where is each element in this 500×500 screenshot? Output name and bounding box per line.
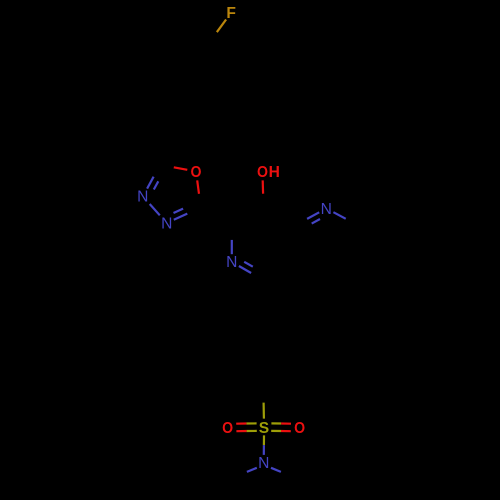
phenyl bond 2 [292,335,294,370]
bond N5-C6 [333,212,358,225]
double bond S=O left [236,423,257,431]
bond O1-C5 oxadiazole [197,180,201,207]
double bond C2=N3 oxadiazole [147,165,163,190]
bond C4-C4a [263,207,295,225]
svg-text:O: O [222,420,233,437]
fluorophenyl ring bond 5 [152,41,174,69]
phenyl bond 3 [263,367,293,387]
bond S-N [263,435,265,455]
bond N1-C3 naphthyridine [231,225,233,254]
svg-text:O: O [294,420,305,437]
svg-text:O: O [191,164,202,181]
fusion bond C4a-C8a [289,225,295,262]
double bond C3=C4 [232,207,264,228]
bond C2-CH2 [149,130,161,165]
svg-text:S: S [259,420,269,437]
phenyl bond 4 [233,369,263,386]
bond C2-phenyl [262,280,264,317]
bond C-S sulfonyl [262,387,265,419]
double bond S=O right [271,423,291,431]
bond F-C fluorophenyl [208,20,227,46]
svg-text:H: H [269,164,280,181]
bond CH2-fluorophenyl [149,102,167,130]
bond N3-N4 oxadiazole [150,204,160,215]
svg-text:F: F [226,5,236,22]
fluorophenyl ring bond 2 [201,77,222,105]
bond C8a-C2 [263,262,295,280]
double bond C5=N4 oxadiazole [174,204,201,220]
svg-text:N: N [137,189,148,206]
fluorophenyl ring bond 4 [152,70,166,102]
fluorophenyl ring bond 1 [204,45,222,77]
svg-text:N: N [161,215,172,232]
phenyl bond 6 [233,317,263,334]
phenyl bond 5 [233,335,239,370]
bond N-CH3 right (methyl) [271,468,281,472]
phenyl bond 1 [263,317,293,337]
fluorophenyl ring bond 6 [173,41,208,45]
double bond C4a=N5 [295,212,320,228]
svg-text:N: N [258,455,269,472]
svg-text:N: N [226,254,237,271]
bond O-C4 hydroxyl [262,180,265,207]
svg-text:N: N [321,201,332,218]
fluorophenyl ring bond 3 [167,96,202,105]
double bond C2=N1 [239,262,264,280]
double bond C8=C8a [295,259,327,280]
bond N-CH3 left (methyl) [247,468,257,472]
bond C7-C8 [327,262,359,280]
bond oxadiazole-naphthyridine [201,208,232,226]
bond O1-C2 oxadiazole [160,165,187,170]
double bond C6=C7 [352,225,358,262]
svg-text:O: O [257,164,268,181]
